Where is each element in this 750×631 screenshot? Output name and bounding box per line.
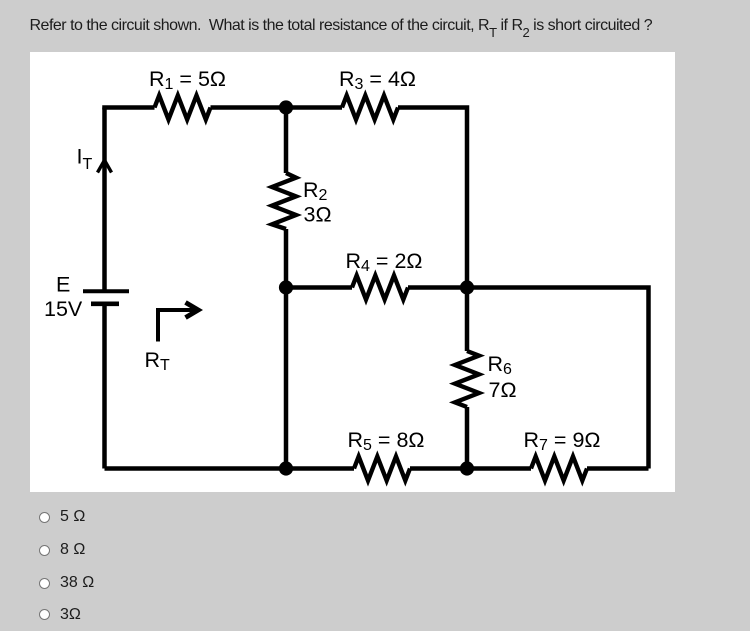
junction node B (279, 280, 293, 294)
radio option 1 (39, 512, 50, 523)
radio option 2 (39, 545, 50, 556)
svg-text:3Ω: 3Ω (304, 203, 332, 227)
svg-text:R4 = 2Ω: R4 = 2Ω (346, 249, 423, 275)
wire: middle rail right segment (R4 to far right corner) (408, 288, 649, 469)
wire: bottom rail right segment (587, 466, 649, 471)
svg-text:7Ω: 7Ω (489, 378, 517, 402)
svg-text:RT: RT (145, 348, 171, 374)
wire: middle rail left segment (node B to R4) (286, 285, 352, 290)
question text (30, 17, 653, 35)
wire: bottom rail left segment (105, 466, 355, 471)
wire: left rail lower (battery - to bottom rail) (102, 304, 107, 469)
wire: top rail right segment into right branch (398, 108, 467, 288)
svg-text:R7 = 9Ω: R7 = 9Ω (524, 428, 601, 454)
svg-text:E: E (56, 273, 70, 297)
junction node C (460, 280, 474, 294)
junction node A (279, 100, 293, 114)
resistor R1 (155, 96, 211, 120)
resistor R5 (354, 457, 410, 481)
resistor R7 (531, 457, 587, 481)
svg-text:IT: IT (77, 145, 93, 174)
resistor R4 (352, 276, 408, 300)
wire: middle branch lower (R2 to node B) (284, 229, 289, 288)
wire: middle branch upper (node A to R2) (284, 108, 289, 174)
wire: left rail upper (to battery +) (102, 108, 107, 292)
white circuit panel (30, 52, 675, 492)
wire: bottom rail middle segment (410, 466, 531, 471)
RT arrow head (186, 302, 199, 317)
battery E negative plate (91, 301, 119, 306)
junction node D (279, 461, 293, 475)
wire: top rail middle segment (211, 105, 343, 110)
resistor R3 (342, 96, 398, 120)
svg-text:R6: R6 (488, 352, 513, 378)
radio option 4 (39, 609, 50, 620)
svg-text:R1 = 5Ω: R1 = 5Ω (149, 67, 226, 93)
resistor R2 (272, 173, 296, 229)
wire: top rail left segment (105, 108, 155, 110)
svg-text:15V: 15V (44, 297, 83, 321)
wire: R6 branch upper (node C to R6) (465, 288, 470, 352)
svg-text:R5 = 8Ω: R5 = 8Ω (348, 428, 425, 454)
wire: R6 branch lower (R6 to node E) (465, 407, 470, 469)
RT arrow (158, 310, 194, 342)
battery E positive plate (83, 289, 129, 293)
junction node E (460, 461, 474, 475)
svg-text:R3 = 4Ω: R3 = 4Ω (339, 67, 416, 93)
svg-text:R2: R2 (303, 178, 328, 204)
resistor R6 (455, 351, 479, 407)
wire: middle branch bottom (node B to node D) (284, 288, 289, 469)
current arrow IT head (98, 160, 112, 172)
radio option 3 (39, 578, 50, 589)
